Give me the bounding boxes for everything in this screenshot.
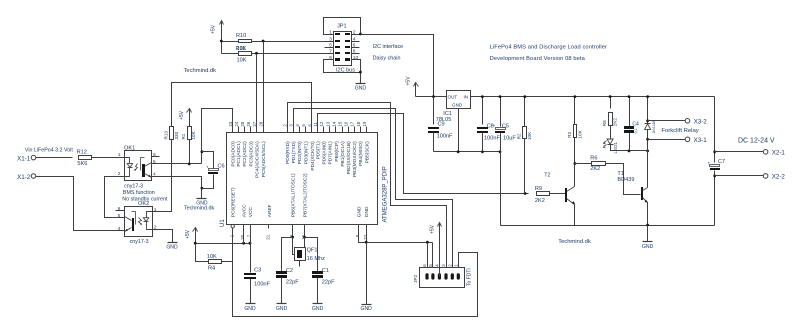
optocoupler OK2 outline [125, 207, 153, 237]
svg-text:10K: 10K [527, 131, 532, 140]
junction C9/JP1 wire [432, 95, 435, 98]
svg-text:17: 17 [350, 121, 355, 126]
svg-text:PB2(SS/OC1B): PB2(SS/OC1B) [346, 141, 352, 174]
svg-text:OUT: OUT [448, 94, 458, 99]
JP1 pin5 bare stub [325, 47, 334, 49]
wire GND to JP2 [367, 242, 433, 244]
IC U1 pin20 AVCC stub [243, 225, 245, 244]
IC U1 ATMEGA328P outline [227, 133, 378, 225]
junction C5 top [499, 95, 502, 98]
wire OK1 pin4 to GND [152, 177, 202, 199]
svg-text:PC1(ADC1): PC1(ADC1) [236, 141, 242, 167]
wire X2-1 row [715, 151, 764, 153]
svg-text:5: 5 [153, 159, 156, 165]
svg-text:R11: R11 [236, 46, 246, 52]
OK2 LED [147, 212, 153, 218]
svg-text:To FDTI: To FDTI [466, 268, 472, 286]
wire C5 column to ground rail [500, 152, 502, 226]
svg-text:Techmind.dk: Techmind.dk [558, 239, 591, 245]
junction R2 top [523, 95, 526, 98]
svg-text:16 Mhz: 16 Mhz [307, 256, 326, 262]
junction C4 top [628, 95, 631, 98]
OK2 photon bolt [139, 218, 142, 225]
svg-text:+: + [206, 165, 209, 170]
svg-text:100nF: 100nF [484, 135, 500, 141]
junction X2-2 [713, 175, 716, 178]
svg-text:PD7(AIN1): PD7(AIN1) [328, 141, 334, 165]
junction C5 bottom [499, 150, 502, 153]
junction C8 top [481, 95, 484, 98]
capacitor C8 [482, 97, 484, 125]
svg-text:2K2: 2K2 [590, 166, 600, 172]
ground GND below JP1 [356, 83, 366, 85]
svg-text:10K: 10K [577, 129, 582, 138]
svg-text:10K: 10K [237, 58, 247, 64]
power +5V arrow (R1) [189, 110, 191, 127]
IC U1 pin1 inversion bubble [231, 225, 234, 228]
wire X3-2 row [648, 120, 686, 122]
svg-text:DC 12-24 V: DC 12-24 V [738, 138, 775, 145]
svg-text:+5V: +5V [406, 76, 412, 86]
svg-text:LED1: LED1 [613, 142, 618, 154]
wire R6 to T1 base [606, 164, 641, 195]
svg-text:9: 9 [329, 55, 332, 61]
wire X2-2 row [715, 175, 764, 177]
junction C8 bottom [481, 150, 484, 153]
svg-text:PB7(XTAL2/TOSC2): PB7(XTAL2/TOSC2) [303, 173, 309, 217]
svg-text:cny17-3: cny17-3 [124, 184, 143, 190]
junction XTAL1 [291, 236, 294, 239]
JP1 pin1 stub and loop to pin2 [324, 18, 361, 35]
svg-text:X1-1: X1-1 [17, 155, 31, 162]
svg-text:PB5(SCK): PB5(SCK) [364, 141, 370, 164]
svg-text:BMS function: BMS function [123, 190, 155, 196]
capacitor C3 [250, 244, 252, 273]
resistor R6 [575, 163, 593, 165]
svg-text:C6: C6 [218, 164, 225, 170]
svg-text:C4: C4 [632, 122, 639, 128]
junction T1 emitter [646, 224, 649, 227]
wire GND to symbol [366, 243, 368, 305]
svg-text:OK2: OK2 [138, 201, 149, 207]
crystal QF1 [293, 238, 295, 255]
svg-text:100nF: 100nF [437, 133, 453, 139]
svg-text:C7: C7 [718, 159, 725, 165]
resistor R12 [79, 156, 92, 160]
svg-text:R8: R8 [602, 120, 607, 126]
junction R4 branch [194, 242, 197, 245]
capacitor C1 [312, 271, 323, 274]
ground rail [501, 225, 715, 227]
svg-text:100nF: 100nF [254, 281, 270, 287]
svg-text:cny17-3: cny17-3 [130, 239, 149, 245]
ground below C1 [313, 303, 323, 305]
junction R2 bottom [524, 192, 527, 195]
svg-text:10K: 10K [191, 130, 196, 139]
wire R1 bottom [189, 140, 191, 164]
LED LED1 [610, 126, 612, 139]
resistor R2 [524, 97, 526, 127]
wire +5V to VCC pins [196, 243, 251, 245]
svg-text:PD1(TXD): PD1(TXD) [291, 141, 297, 164]
svg-text:6: 6 [153, 152, 156, 158]
svg-text:GND: GND [244, 306, 256, 312]
junction JP1 gnd loop [359, 71, 362, 74]
wire GND pin22 [366, 225, 368, 243]
diode D1 1N4148 [647, 97, 649, 124]
svg-text:15: 15 [338, 121, 343, 126]
svg-text:PC3(ADC3): PC3(ADC3) [248, 141, 254, 167]
svg-text:22: 22 [363, 234, 368, 239]
junction SCL [262, 40, 265, 43]
svg-text:PD4(XCK/T0): PD4(XCK/T0) [310, 141, 316, 171]
junction diode top [646, 95, 649, 98]
JP1 pads [335, 33, 340, 35]
wire R13 top to PD4 pin6 [172, 83, 312, 133]
JP1 pin9 stub and bottom loop [324, 60, 361, 73]
terminal X3-1 [685, 137, 690, 142]
ground below OK1 [197, 198, 207, 200]
junction IC1 gnd [457, 150, 460, 153]
capacitor C5 electrolytic [500, 97, 502, 127]
junction C6 bottom [201, 187, 204, 190]
ground below U1 [362, 304, 372, 306]
junction X3-1 row [646, 138, 649, 141]
wire R12 to OK1 pin1 [92, 157, 125, 159]
svg-text:T2: T2 [544, 172, 550, 178]
svg-text:R13: R13 [164, 131, 169, 140]
svg-text:27: 27 [252, 121, 257, 126]
resistor R13 [170, 127, 174, 140]
terminal X2-2 [763, 174, 768, 179]
svg-text:23: 23 [228, 121, 233, 126]
svg-text:PB3(MOSI/OC2): PB3(MOSI/OC2) [352, 141, 358, 177]
svg-text:+: + [708, 161, 711, 166]
svg-text:1: 1 [118, 152, 121, 158]
wire R11 to JP1 pin7 [252, 53, 334, 55]
wire OK2 pin2 to GND [153, 230, 173, 243]
wire T1 collector [647, 151, 649, 188]
wire LED1 to T1 collector node [611, 145, 648, 151]
junction VCC/C3 [249, 242, 252, 245]
junction R1 bottom [188, 163, 191, 166]
svg-text:20: 20 [240, 234, 245, 239]
svg-text:GND: GND [355, 86, 367, 92]
IC U1 pin21 AREF bare stub [268, 225, 270, 229]
svg-text:GND: GND [357, 206, 363, 217]
svg-text:GND: GND [166, 245, 178, 251]
power +5V arrow (MCU VCC) [195, 229, 197, 244]
svg-text:Development Board Version 08 b: Development Board Version 08 beta [490, 56, 586, 62]
junction R3 top [574, 95, 577, 98]
junction X2-1 [713, 150, 716, 153]
wire R3 bottom to T2 collector [574, 138, 576, 187]
svg-text:C1: C1 [322, 268, 329, 274]
connector JP2 outline [420, 268, 465, 288]
svg-text:22pF: 22pF [286, 279, 299, 285]
OK1 pin6 stub [152, 156, 160, 158]
wire XTAL1 pin9 [292, 225, 294, 238]
svg-text:PC2(ADC2): PC2(ADC2) [242, 141, 248, 167]
svg-text:Techmind.dk: Techmind.dk [184, 68, 217, 74]
svg-text:2: 2 [118, 171, 121, 177]
svg-text:JP2: JP2 [413, 274, 419, 283]
svg-text:R4: R4 [208, 265, 215, 271]
svg-text:Forkclift Relay: Forkclift Relay [661, 128, 698, 134]
svg-text:OK1: OK1 [124, 146, 135, 152]
junction XTAL2 [303, 236, 306, 239]
svg-text:ATMEGA328P_PDIP: ATMEGA328P_PDIP [383, 166, 389, 222]
svg-text:GND: GND [276, 306, 288, 312]
junction SDA [255, 52, 258, 55]
transistor T2 [565, 188, 567, 202]
svg-text:+: + [493, 123, 496, 128]
svg-text:X2-2: X2-2 [772, 174, 786, 181]
terminal X3-2 [685, 119, 690, 124]
wire R13 bottom to OK2 pin1 [153, 140, 172, 212]
svg-text:GND: GND [642, 244, 654, 250]
wire RESET to JP2 pin1 [233, 253, 478, 317]
svg-text:U1: U1 [220, 219, 226, 227]
terminal X2-1 [763, 150, 768, 155]
resistor R10 [239, 40, 252, 43]
capacitor C2 [276, 271, 287, 274]
svg-text:PB4(MISO): PB4(MISO) [358, 141, 364, 166]
wire R11 row [222, 53, 239, 55]
wire XTAL1 to C2 [282, 238, 293, 272]
svg-text:PD2(INT0): PD2(INT0) [297, 141, 303, 164]
wire R10 to JP1 pin3 [252, 41, 334, 43]
OK1 pin1 stub [116, 157, 125, 159]
capacitor C6 [202, 152, 214, 169]
wire +5V rail to IC1 [416, 96, 447, 98]
svg-text:C2: C2 [286, 268, 293, 274]
svg-text:1: 1 [154, 207, 157, 213]
wire SCL to PC5 pin28 [263, 42, 265, 133]
svg-text:+5V: +5V [185, 229, 191, 239]
svg-text:1N4148: 1N4148 [652, 120, 656, 133]
svg-text:PD0(RXD): PD0(RXD) [285, 141, 291, 164]
wire XTAL2 pin10 [304, 225, 306, 238]
terminal X1-1 [31, 155, 36, 160]
wire R4 branch [196, 244, 209, 262]
svg-text:BD439: BD439 [617, 177, 634, 183]
svg-text:PD5(T1): PD5(T1) [316, 141, 322, 160]
capacitor C4 [629, 97, 631, 128]
ground below C3 [246, 303, 256, 305]
JP1 right bare stubs pins 4,6,8 [352, 41, 360, 43]
svg-text:10: 10 [353, 55, 359, 61]
svg-text:3: 3 [329, 36, 332, 42]
svg-text:21: 21 [266, 234, 271, 239]
svg-text:GND: GND [364, 206, 370, 217]
wire X1-1 to R12 [36, 157, 73, 159]
svg-text:10uF: 10uF [503, 135, 516, 141]
wire XTAL2 to C1 [305, 238, 318, 272]
svg-text:JP1: JP1 [337, 24, 347, 30]
svg-text:VCC: VCC [248, 207, 254, 218]
wire JP2 pin6 drop [427, 243, 429, 277]
power +5V arrow (JP2 pin4) [439, 223, 441, 277]
svg-text:0.1: 0.1 [634, 128, 638, 133]
capacitor C7 electrolytic [710, 165, 720, 167]
wire R9 to T2 base [550, 193, 566, 195]
svg-text:330: 330 [174, 131, 179, 139]
power +5V arrow (IC1 out) [415, 84, 417, 97]
svg-text:28: 28 [259, 121, 264, 126]
svg-text:10K: 10K [207, 254, 217, 260]
svg-text:25: 25 [240, 121, 245, 126]
svg-text:X3-1: X3-1 [694, 137, 708, 144]
svg-text:R1: R1 [181, 133, 186, 139]
svg-text:C5: C5 [502, 123, 509, 129]
svg-text:GND: GND [312, 306, 324, 312]
wire GND pin8 [359, 225, 367, 243]
svg-text:GND: GND [361, 306, 373, 312]
svg-text:16: 16 [344, 121, 349, 126]
svg-text:26: 26 [246, 121, 251, 126]
junction R8 top [609, 95, 612, 98]
wire T1 gnd [647, 226, 649, 242]
ground below OK2 pin2 [168, 242, 178, 244]
OK1 phototransistor [141, 158, 145, 171]
svg-text:C3: C3 [254, 268, 261, 274]
JP1 pin10 stub to GND [352, 60, 361, 84]
wire PC0 net up to pin23 [202, 109, 233, 164]
OK1 photon bolt [135, 164, 138, 171]
JP1 pin2 stub [352, 34, 361, 36]
svg-text:19: 19 [362, 121, 367, 126]
resistor R3 [574, 97, 576, 125]
svg-text:5: 5 [118, 213, 121, 219]
svg-text:PB0(ICP): PB0(ICP) [334, 141, 340, 162]
junction JP2 pin6 gnd [426, 241, 429, 244]
ground below T1 [643, 241, 653, 243]
resistor R8 [610, 97, 612, 109]
svg-text:18: 18 [356, 121, 361, 126]
svg-text:5K6: 5K6 [77, 161, 87, 167]
svg-text:4: 4 [118, 226, 121, 232]
IC U1 pin7 VCC stub [250, 225, 252, 244]
junction JP1 pin2 [359, 33, 362, 36]
junction AVCC [242, 242, 245, 245]
junction C4 bottom [628, 150, 631, 153]
junction GND pins [365, 241, 368, 244]
junction C6 top branch [201, 150, 204, 153]
wire OK1 pin2 to OK2 pin5 [105, 177, 125, 218]
svg-text:R9: R9 [535, 186, 542, 192]
svg-text:Vin LiFePo4 3.2 Volt: Vin LiFePo4 3.2 Volt [25, 147, 73, 153]
wire R4 to RESET [222, 261, 233, 263]
OK1 LED [125, 158, 130, 164]
wire cap gnd rail [434, 151, 501, 153]
ground below C2 [277, 303, 287, 305]
svg-text:R12: R12 [77, 150, 87, 156]
svg-text:2K2: 2K2 [535, 198, 545, 204]
svg-text:R2: R2 [517, 133, 522, 139]
junction X3-2 row [646, 119, 649, 122]
svg-text:AVCC: AVCC [242, 204, 248, 218]
connector JP1 outline [334, 32, 352, 66]
wire OK2 pin5 internal [124, 217, 126, 218]
capacitor C9 [433, 97, 435, 125]
svg-text:C9: C9 [438, 122, 445, 128]
svg-text:+5V: +5V [429, 224, 435, 234]
OK2 pin6 bare stub [116, 210, 125, 212]
JP2 pads [425, 273, 428, 279]
svg-text:PD6(AIN0): PD6(AIN0) [322, 141, 328, 165]
svg-text:2K2: 2K2 [612, 118, 617, 127]
junction LED row [646, 150, 649, 153]
svg-text:6: 6 [118, 206, 121, 212]
resistor R11 [239, 52, 252, 56]
svg-text:13: 13 [325, 121, 330, 126]
svg-text:Techmind.dk: Techmind.dk [184, 206, 215, 212]
svg-text:X3-2: X3-2 [694, 118, 708, 125]
svg-text:12: 12 [319, 121, 324, 126]
svg-text:IN: IN [464, 94, 469, 99]
wire R10 row [222, 41, 239, 43]
junction R10 left [220, 40, 223, 43]
wire X3-1 row [648, 139, 686, 141]
svg-text:X2-1: X2-1 [772, 149, 786, 156]
svg-text:R3: R3 [567, 131, 572, 137]
wire PD5 pin11 to R9 [318, 114, 529, 194]
IC U1 pin1 RESET stub [232, 225, 234, 262]
wire JP2 pin5 drop [432, 243, 434, 277]
IC1 78L05 outline [447, 91, 471, 109]
wire X1-2 to OK2 pin4 [36, 177, 125, 231]
svg-text:QF1: QF1 [307, 247, 318, 253]
svg-text:X1-2: X1-2 [17, 174, 31, 181]
svg-text:14: 14 [331, 121, 336, 126]
wire OK1 pin5 to PC0 net [152, 163, 202, 165]
svg-text:GND: GND [452, 102, 463, 107]
svg-text:PD3(INT1): PD3(INT1) [303, 141, 309, 164]
svg-text:Daisy chain: Daisy chain [373, 56, 401, 62]
svg-text:PB1(OC1A): PB1(OC1A) [340, 141, 346, 167]
svg-text:I2C bus: I2C bus [336, 68, 355, 74]
wire RXD pin2 to JP2 pin3 [288, 103, 447, 277]
svg-text:PB6(XTAL1/TOSC1): PB6(XTAL1/TOSC1) [291, 173, 297, 217]
svg-text:PC0(ADC0): PC0(ADC0) [230, 141, 236, 167]
svg-text:+5V: +5V [179, 110, 185, 120]
wire 12V down corner [714, 97, 716, 163]
wire SDA to PC4 pin27 [256, 54, 258, 133]
svg-text:AREF: AREF [267, 204, 273, 217]
svg-text:24: 24 [234, 121, 239, 126]
svg-text:LiFePo4 BMS and Discharge Load: LiFePo4 BMS and Discharge Load controlle… [490, 44, 607, 50]
svg-text:R6: R6 [590, 156, 597, 162]
resistor R4 [209, 260, 222, 264]
terminal X1-2 [31, 174, 36, 179]
svg-text:I2C interface: I2C interface [373, 44, 404, 50]
wire TXD pin3 to JP2 pin2 [294, 109, 453, 277]
wire 12V rail from IC1 to X2-1 corner [471, 96, 715, 98]
LED1 emission arrows [604, 141, 607, 144]
svg-text:+5V: +5V [211, 24, 217, 34]
svg-text:PC5(ADC5/SCL): PC5(ADC5/SCL) [261, 141, 267, 177]
resistor R1 [188, 127, 192, 140]
svg-text:7: 7 [329, 49, 332, 55]
svg-text:PC4(ADC4/SDA): PC4(ADC4/SDA) [254, 141, 260, 178]
OK2 phototransistor [132, 212, 136, 225]
resistor R9 [537, 192, 550, 196]
svg-text:PC6(/RESET): PC6(/RESET) [231, 187, 237, 217]
optocoupler OK1 outline [125, 151, 152, 181]
power +5V arrow (R10/R11 pullups) [221, 22, 223, 54]
svg-text:R10: R10 [236, 33, 246, 39]
